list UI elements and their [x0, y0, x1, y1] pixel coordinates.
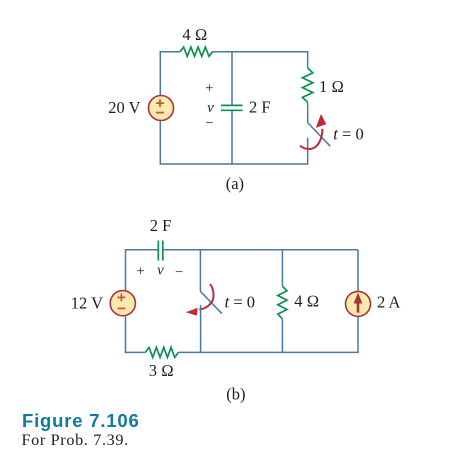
wire: right branch bottom lead (b): [357, 316, 359, 352]
voltage source 20V circle (a): [149, 96, 174, 121]
resistor R 1ohm (a): [302, 68, 312, 102]
svg-text:4 Ω: 4 Ω: [294, 292, 319, 311]
wire: top wire left segment (b): [126, 250, 159, 291]
wire: 4ohm branch bottom lead (b): [281, 319, 283, 353]
switch blade (a): [308, 123, 331, 147]
switch arc arrow (a): [300, 114, 326, 149]
svg-text:−: −: [206, 116, 214, 132]
wire: bottom wire right segment (b): [178, 351, 358, 353]
svg-text:v: v: [207, 100, 214, 116]
capacitor C 2F plates (a): [221, 105, 243, 110]
resistor R 4ohm (b): [278, 286, 287, 319]
svg-text:20 V: 20 V: [108, 98, 140, 117]
svg-text:2 F: 2 F: [249, 98, 271, 117]
plus sign in 20V source: [156, 99, 164, 112]
svg-text:t = 0: t = 0: [225, 292, 255, 311]
wire: left wire bottom + bottom wire (a): [160, 121, 308, 164]
wire: switch top lead (a): [307, 102, 309, 122]
svg-text:−: −: [175, 264, 183, 280]
wire: middle branch bottom (a): [231, 110, 233, 164]
svg-text:3 Ω: 3 Ω: [149, 361, 174, 380]
resistor R 4ohm (a): [180, 47, 213, 56]
wire: switch bottom stub (b): [200, 305, 202, 353]
switch arc arrow (b): [186, 284, 214, 316]
switch blade (b): [200, 291, 222, 313]
wire: top wire right segment + right wire top: [213, 52, 308, 68]
svg-text:2 F: 2 F: [150, 216, 172, 235]
voltage source 12V circle (b): [110, 291, 135, 316]
wire: 4ohm branch top lead (b): [281, 250, 283, 286]
capacitor C 2F plates (b): [158, 241, 163, 261]
wire: left wire bottom (b): [125, 316, 127, 353]
wire: right branch top lead (b): [357, 250, 359, 292]
svg-text:(a): (a): [226, 174, 244, 193]
svg-text:(b): (b): [226, 384, 245, 403]
svg-text:12 V: 12 V: [71, 294, 103, 313]
svg-text:1 Ω: 1 Ω: [319, 77, 344, 96]
svg-text:For Prob. 7.39.: For Prob. 7.39.: [22, 431, 129, 449]
wire: top wire right segment (b): [163, 249, 358, 251]
wire: switch branch top lead (b): [199, 250, 201, 292]
wire: left wire top + top wire left segment: [160, 52, 180, 96]
arrow in 2A source: [354, 293, 363, 313]
current source 2A circle (b): [346, 291, 371, 316]
svg-text:2 A: 2 A: [377, 293, 400, 312]
svg-text:+: +: [205, 81, 213, 97]
plus sign in 12V source: [118, 294, 126, 309]
svg-text:t = 0: t = 0: [333, 125, 363, 144]
resistor R 3ohm (b): [145, 347, 178, 357]
svg-text:v: v: [157, 262, 164, 278]
svg-text:Figure 7.106: Figure 7.106: [22, 410, 140, 431]
wire: middle branch top (a): [231, 52, 233, 106]
wire: bottom wire left segment (b): [125, 351, 146, 353]
svg-text:+: +: [137, 264, 145, 280]
svg-text:4 Ω: 4 Ω: [182, 25, 207, 44]
wire: switch bottom stub (a): [307, 138, 309, 164]
